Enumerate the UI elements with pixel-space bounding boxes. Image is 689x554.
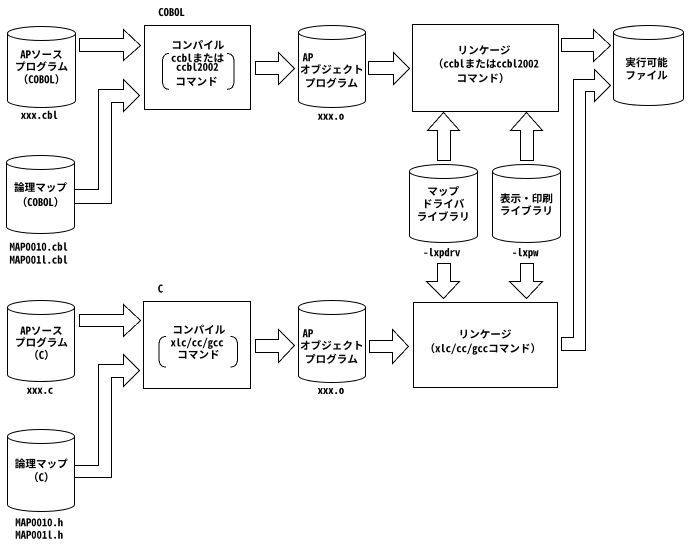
text AP object C line3 (306, 354, 357, 364)
cylinder executable file (614, 33, 684, 106)
cylinder logical map C (8, 437, 75, 512)
wire bent arrow logical map C to compile box C (75, 355, 140, 478)
wire arrow AP object C to linkage box C (370, 330, 409, 364)
text AP source C line1 (20, 327, 62, 336)
label C heading (158, 285, 163, 293)
text map driver line1 (428, 186, 459, 196)
box compile C (144, 302, 251, 389)
label xxx.o C (318, 388, 344, 394)
text compile box line2 (172, 53, 224, 62)
text AP object COBOL line1 (303, 53, 313, 61)
label xxx.o COBOL (318, 114, 344, 120)
text AP object C line2 (301, 340, 363, 350)
wire arrow AP object COBOL to linkage box (369, 53, 410, 85)
paren left compile C (159, 337, 166, 368)
label MAP0010.cbl (10, 242, 68, 250)
text AP object COBOL line3 (306, 78, 357, 88)
paren left compile COBOL (163, 54, 170, 90)
text logical map C line2 (35, 472, 48, 482)
cylinder AP object program C (298, 308, 365, 383)
label -lxpdrv (424, 248, 460, 258)
text logical map COBOL line2 (24, 197, 58, 207)
text AP object C line1 (303, 329, 313, 337)
text compile C line1 (174, 325, 225, 334)
text compile box line4 (177, 77, 217, 86)
text map driver line2 (425, 199, 464, 209)
wire bent arrow linkage box C to executable file (562, 70, 611, 351)
text executable line1 (626, 57, 668, 67)
text linkage box line3 (458, 73, 503, 83)
label COBOL heading (159, 8, 185, 16)
wire down arrow map driver library to linkage box C (427, 264, 460, 299)
label MAP001l.cbl (10, 255, 68, 263)
label -lxpw (513, 248, 539, 258)
wire arrow AP source COBOL to compile box (80, 30, 141, 61)
text linkage box line1 (460, 45, 511, 54)
text display print line2 (501, 205, 551, 215)
text display print line1 (500, 193, 552, 203)
text AP source C line2 (16, 337, 67, 347)
text compile C line3 (179, 350, 219, 359)
text executable line2 (627, 70, 668, 80)
text AP source COBOL line2 (16, 61, 67, 71)
text AP source COBOL line3 (25, 74, 59, 84)
label xxx.c (27, 388, 53, 394)
box linkage COBOL (413, 25, 559, 112)
wire up arrow map driver library to linkage box (428, 113, 460, 161)
label xxx.cbl (21, 111, 58, 119)
paren right compile C (231, 337, 238, 368)
text linkage C line1 (461, 329, 512, 338)
box compile COBOL (145, 26, 251, 110)
wire arrow compile box COBOL to AP object (256, 53, 295, 85)
text map driver line3 (418, 211, 468, 221)
text AP source C line3 (35, 350, 48, 360)
wire up arrow display print library to linkage box (511, 113, 543, 161)
cylinder display print library (493, 172, 561, 243)
paren right compile COBOL (227, 54, 234, 90)
cylinder AP object program COBOL (298, 33, 365, 108)
text linkage C line2 (432, 343, 535, 355)
text logical map COBOL line1 (14, 182, 67, 192)
cylinder map driver library (410, 172, 478, 243)
text compile box line3 (177, 63, 219, 71)
text AP object COBOL line2 (301, 64, 363, 74)
wire arrow linkage box COBOL to executable file (562, 30, 611, 62)
wire arrow compile box C to AP object C (256, 330, 295, 363)
box linkage C (414, 303, 558, 388)
text compile box line1 (173, 40, 224, 49)
wire arrow AP source C to compile box C (80, 305, 141, 337)
cylinder logical map COBOL (7, 163, 75, 234)
wire down arrow display print library to linkage box C (510, 264, 543, 299)
text AP source COBOL line1 (20, 50, 62, 59)
wire bent arrow logical map COBOL to compile box (75, 80, 140, 204)
label MAP0010.h (16, 518, 63, 526)
cylinder AP source program C (8, 308, 75, 382)
label MAP001l.h (16, 531, 63, 539)
text linkage box line2 (440, 58, 539, 68)
cylinder AP source program COBOL (8, 34, 76, 108)
text compile C line2 (171, 338, 223, 349)
text logical map C line1 (15, 459, 67, 469)
